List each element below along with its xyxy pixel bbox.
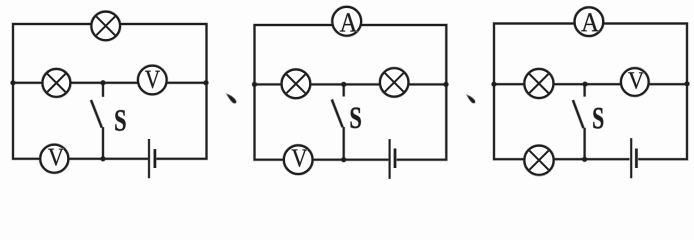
junction (circuit 2, bottom-center): [341, 157, 346, 162]
junction (circuit 1, bottom-center): [101, 156, 106, 161]
label S (switch circuit 2): [351, 107, 361, 128]
label V (voltmeter, middle circuit 1): [145, 71, 160, 88]
junction (circuit 3, mid-right): [685, 81, 690, 86]
junction (circuit 1, mid-center): [101, 80, 106, 85]
separator ideographic comma between circuit 1 and 2: [227, 94, 236, 103]
label V (voltmeter, bottom circuit 2): [292, 150, 308, 167]
junction (circuit 1, mid-right): [204, 80, 209, 85]
voltmeter V (middle, circuit 1): [138, 66, 167, 95]
label A (ammeter circuit 2): [340, 13, 357, 31]
wire: circuit 3 outer loop (gap at battery): [494, 24, 687, 160]
separator ideographic comma between circuit 2 and 3: [467, 95, 475, 103]
wire: circuit 3 switch branch top stub: [584, 84, 586, 96]
label A (ammeter circuit 3): [581, 13, 598, 31]
ammeter A (circuit 2): [332, 7, 361, 36]
wire: circuit 1 middle horizontal: [13, 82, 207, 84]
lamp (middle-right, circuit 2): [380, 68, 408, 96]
ammeter A (circuit 3): [575, 7, 604, 36]
lamp (middle-left, circuit 2): [282, 70, 311, 99]
wire: circuit 1 switch branch top stub: [102, 83, 104, 97]
label S (switch circuit 1): [115, 110, 125, 131]
wire: circuit 1 switch branch bottom stub: [102, 127, 104, 159]
battery (circuit 3) short plate: [635, 149, 637, 169]
junction (circuit 2, mid-center): [341, 82, 346, 87]
voltmeter V (bottom, circuit 2): [284, 145, 313, 174]
label V (voltmeter, bottom circuit 1): [48, 149, 64, 166]
wire: circuit 3 middle horizontal: [494, 83, 687, 85]
voltmeter V (bottom, circuit 1): [40, 145, 68, 173]
lamp (middle, circuit 1): [43, 69, 71, 97]
battery (circuit 1) short plate: [154, 149, 156, 168]
battery (circuit 2) short plate: [394, 149, 396, 169]
switch S (circuit 2) blade: [332, 100, 343, 128]
wire: circuit 2 middle horizontal: [255, 83, 447, 85]
junction (circuit 2, mid-right): [444, 82, 449, 87]
battery (circuit 1) long plate: [148, 139, 150, 178]
junction (circuit 3, bottom-center): [582, 157, 587, 162]
label V (voltmeter, middle circuit 3): [628, 72, 644, 88]
label S (switch circuit 3): [593, 108, 603, 129]
battery (circuit 2) long plate: [389, 139, 391, 179]
battery (circuit 3) long plate: [630, 138, 632, 178]
switch S (circuit 1) blade: [91, 100, 102, 128]
lamp (top, circuit 1): [91, 12, 120, 41]
wire: circuit 3 switch branch bottom stub: [584, 128, 586, 159]
wire: circuit 2 switch branch bottom stub: [343, 127, 345, 160]
switch S (circuit 3) blade: [573, 100, 584, 128]
junction (circuit 3, mid-center): [583, 82, 588, 87]
junction (circuit 1, mid-left): [11, 80, 16, 85]
wire: circuit 2 outer loop (gap at battery): [255, 25, 447, 160]
lamp (bottom, circuit 3): [524, 146, 553, 175]
junction (circuit 2, mid-left): [252, 82, 257, 87]
voltmeter V (middle, circuit 3): [621, 68, 649, 96]
lamp (middle, circuit 3): [524, 69, 553, 98]
wire: circuit 1 outer loop (gap at battery): [13, 24, 207, 159]
wire: circuit 2 switch branch top stub: [343, 84, 345, 96]
junction (circuit 3, mid-left): [492, 82, 497, 87]
